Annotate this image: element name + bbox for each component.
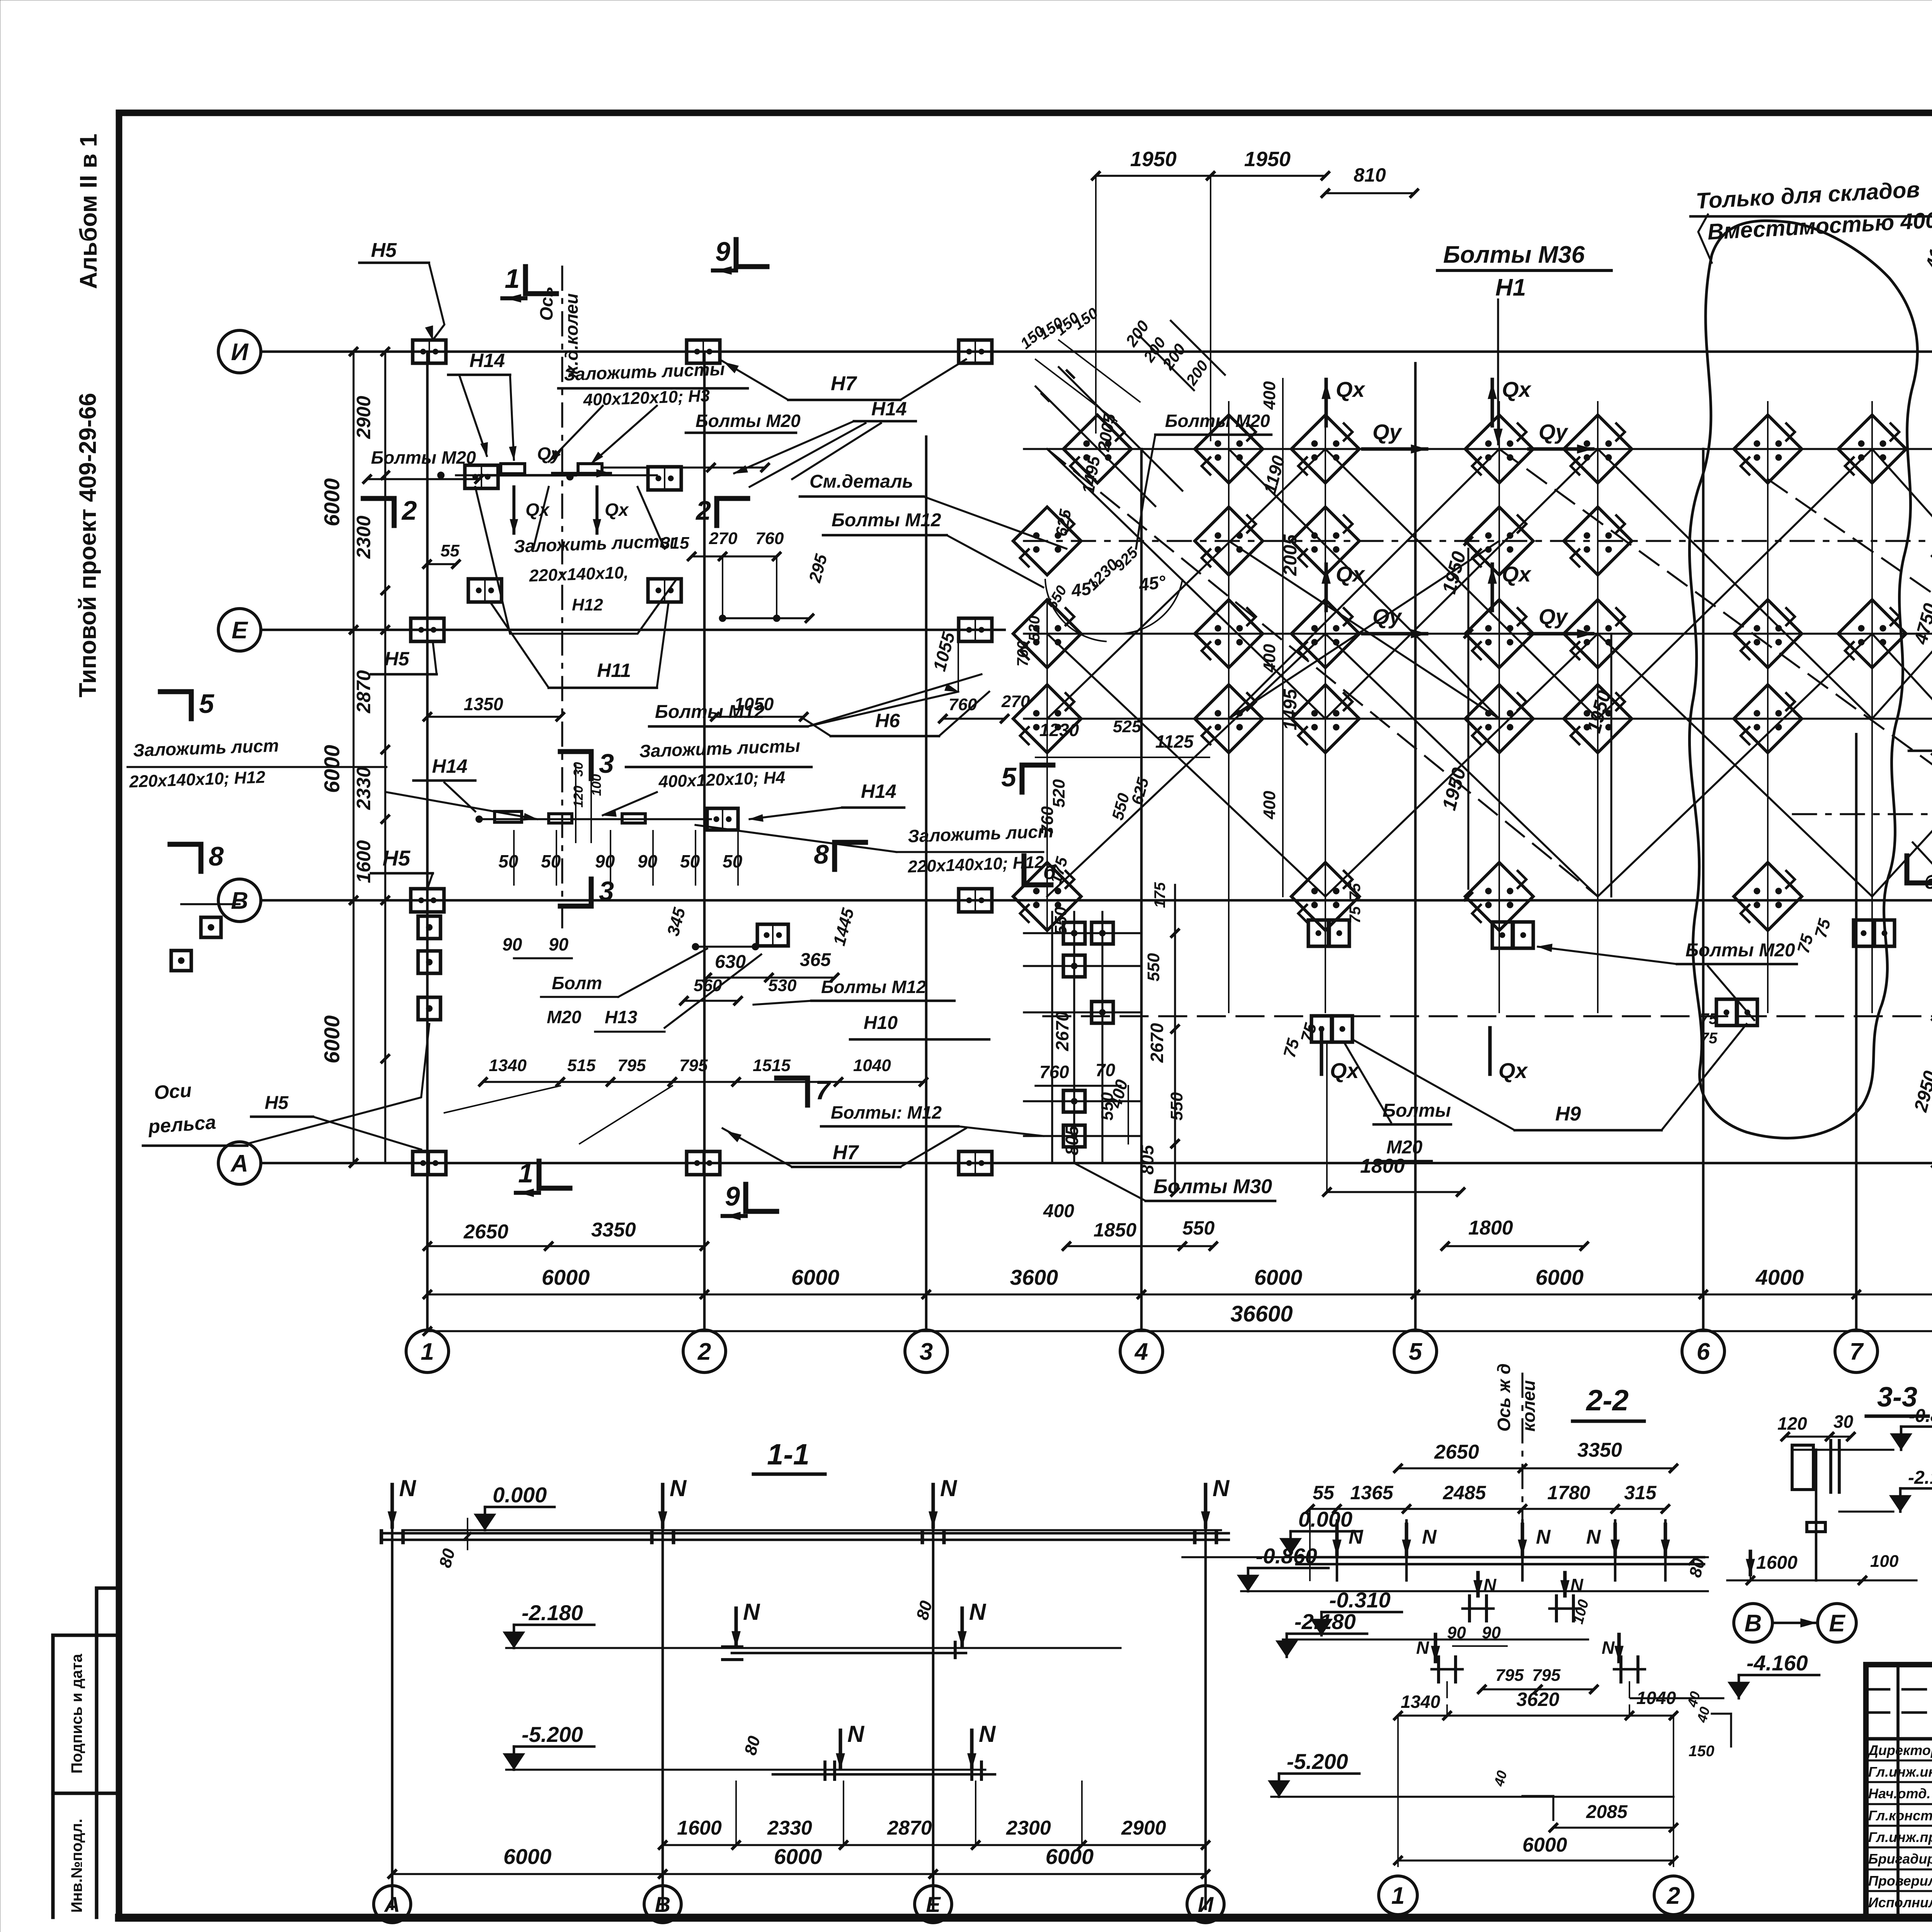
svg-text:2870: 2870 xyxy=(353,670,374,713)
svg-text:А: А xyxy=(230,1150,248,1177)
svg-text:И: И xyxy=(231,339,249,366)
svg-text:805: 805 xyxy=(1062,1125,1082,1155)
svg-text:В: В xyxy=(231,888,248,914)
svg-text:6000: 6000 xyxy=(320,745,344,793)
svg-text:550: 550 xyxy=(1182,1217,1215,1239)
svg-text:Нач.отд.: Нач.отд. xyxy=(1868,1786,1930,1801)
svg-text:2: 2 xyxy=(1667,1883,1680,1909)
svg-text:3: 3 xyxy=(920,1338,933,1365)
svg-text:Н14: Н14 xyxy=(469,350,505,371)
svg-text:N: N xyxy=(1586,1526,1601,1548)
svg-text:2: 2 xyxy=(695,495,711,526)
svg-text:1515: 1515 xyxy=(753,1056,791,1075)
svg-text:75: 75 xyxy=(1347,883,1364,900)
svg-text:8: 8 xyxy=(209,841,224,871)
svg-text:Н5: Н5 xyxy=(383,846,410,870)
svg-text:270: 270 xyxy=(709,529,738,548)
svg-text:560: 560 xyxy=(694,976,722,995)
svg-text:1: 1 xyxy=(505,264,520,294)
svg-text:Qx: Qx xyxy=(1336,562,1366,586)
svg-text:50: 50 xyxy=(498,851,519,871)
svg-text:1230: 1230 xyxy=(1039,720,1079,740)
svg-text:См.деталь: См.деталь xyxy=(810,471,913,492)
svg-text:Н14: Н14 xyxy=(861,781,896,802)
svg-text:Болты М20: Болты М20 xyxy=(1165,411,1270,431)
svg-text:760: 760 xyxy=(949,695,977,714)
svg-text:Альбом II в 1: Альбом II в 1 xyxy=(75,134,102,289)
svg-text:400: 400 xyxy=(1043,1201,1074,1221)
svg-text:9: 9 xyxy=(715,236,730,267)
svg-text:150: 150 xyxy=(1689,1743,1714,1760)
svg-text:Бригадир: Бригадир xyxy=(1868,1851,1932,1867)
svg-text:1600: 1600 xyxy=(353,840,374,883)
svg-text:220х140х10,: 220х140х10, xyxy=(529,563,629,585)
svg-text:5: 5 xyxy=(1001,762,1017,792)
svg-text:3600: 3600 xyxy=(1010,1265,1058,1289)
svg-text:Qy: Qy xyxy=(1539,604,1569,629)
svg-text:30: 30 xyxy=(1833,1412,1854,1432)
svg-text:Н5: Н5 xyxy=(384,648,410,670)
svg-text:530: 530 xyxy=(768,976,797,995)
svg-text:N: N xyxy=(1536,1526,1551,1548)
svg-text:Н9: Н9 xyxy=(1555,1103,1581,1125)
svg-text:2670: 2670 xyxy=(1052,1011,1072,1051)
svg-text:Н10: Н10 xyxy=(864,1013,898,1033)
svg-text:1600: 1600 xyxy=(677,1817,722,1839)
svg-text:520: 520 xyxy=(1049,779,1068,808)
svg-text:Болты М36: Болты М36 xyxy=(1443,241,1585,268)
svg-text:50: 50 xyxy=(723,851,743,871)
svg-text:4000: 4000 xyxy=(1755,1265,1804,1289)
svg-text:N: N xyxy=(940,1475,957,1501)
svg-text:795: 795 xyxy=(1532,1666,1561,1685)
svg-text:760: 760 xyxy=(755,529,784,548)
svg-text:Н6: Н6 xyxy=(875,710,900,731)
svg-text:6000: 6000 xyxy=(1522,1834,1567,1856)
svg-text:1340: 1340 xyxy=(489,1056,527,1075)
svg-text:N: N xyxy=(1570,1575,1583,1595)
svg-text:2: 2 xyxy=(401,495,417,526)
svg-text:Болты: Болты xyxy=(1383,1100,1451,1121)
svg-text:N: N xyxy=(670,1475,687,1501)
svg-text:1800: 1800 xyxy=(1360,1155,1405,1177)
svg-text:1: 1 xyxy=(421,1338,434,1365)
svg-text:400: 400 xyxy=(1260,381,1279,410)
svg-text:550: 550 xyxy=(1098,1092,1117,1121)
svg-text:6000: 6000 xyxy=(774,1844,822,1869)
svg-text:Qx: Qx xyxy=(1502,562,1532,586)
svg-text:1850: 1850 xyxy=(1094,1219,1136,1241)
svg-text:400: 400 xyxy=(1260,644,1279,673)
svg-text:6000: 6000 xyxy=(320,1015,344,1064)
svg-text:Н7: Н7 xyxy=(833,1141,859,1164)
svg-text:N: N xyxy=(1416,1638,1429,1658)
svg-text:Проверил: Проверил xyxy=(1868,1873,1932,1889)
svg-text:2330: 2330 xyxy=(767,1817,812,1839)
svg-text:1: 1 xyxy=(1391,1883,1405,1909)
svg-text:760: 760 xyxy=(1038,806,1057,835)
svg-text:550: 550 xyxy=(1167,1092,1186,1121)
svg-text:1125: 1125 xyxy=(1155,731,1194,752)
svg-text:7: 7 xyxy=(815,1075,832,1105)
svg-text:Гл.инж.ин.: Гл.инж.ин. xyxy=(1868,1764,1932,1780)
svg-text:Н14: Н14 xyxy=(871,398,907,420)
svg-text:Н5: Н5 xyxy=(371,239,397,262)
svg-text:55: 55 xyxy=(440,541,459,560)
svg-text:Н1: Н1 xyxy=(1495,274,1526,301)
svg-text:N: N xyxy=(743,1599,760,1625)
svg-text:1780: 1780 xyxy=(1547,1482,1590,1503)
svg-text:1040: 1040 xyxy=(853,1056,891,1075)
svg-text:3350: 3350 xyxy=(1577,1439,1622,1461)
svg-text:1600: 1600 xyxy=(1756,1553,1798,1573)
svg-text:1340: 1340 xyxy=(1401,1692,1440,1712)
svg-text:Н7: Н7 xyxy=(831,372,857,395)
svg-text:Болты: М12: Болты: М12 xyxy=(831,1102,942,1122)
svg-text:Гл.констр.: Гл.констр. xyxy=(1868,1808,1932,1823)
svg-text:365: 365 xyxy=(800,950,831,970)
svg-text:-5.200: -5.200 xyxy=(522,1722,583,1747)
svg-text:В: В xyxy=(1745,1610,1762,1637)
svg-text:Qx: Qx xyxy=(526,500,550,520)
svg-text:55: 55 xyxy=(1313,1482,1335,1503)
svg-text:315: 315 xyxy=(1624,1482,1657,1503)
svg-text:N: N xyxy=(1213,1475,1230,1501)
svg-text:2330: 2330 xyxy=(353,767,374,810)
svg-text:-2.180: -2.180 xyxy=(1908,1468,1932,1488)
svg-text:Болты М12: Болты М12 xyxy=(821,977,926,997)
svg-text:515: 515 xyxy=(567,1056,596,1075)
svg-text:2300: 2300 xyxy=(1006,1817,1051,1839)
svg-text:100: 100 xyxy=(1870,1552,1899,1571)
svg-text:Qy: Qy xyxy=(1539,420,1569,444)
svg-text:1: 1 xyxy=(518,1158,533,1188)
svg-text:550: 550 xyxy=(1051,906,1070,935)
svg-text:2485: 2485 xyxy=(1442,1482,1486,1503)
svg-text:Qy: Qy xyxy=(1372,604,1403,629)
svg-text:6000: 6000 xyxy=(542,1265,590,1289)
svg-text:120: 120 xyxy=(571,786,586,808)
svg-text:2300: 2300 xyxy=(353,515,374,559)
svg-text:90: 90 xyxy=(595,851,615,871)
svg-text:2: 2 xyxy=(697,1338,711,1365)
svg-text:315: 315 xyxy=(661,534,689,553)
svg-text:75: 75 xyxy=(1700,1010,1718,1027)
svg-text:9: 9 xyxy=(725,1181,740,1211)
svg-text:Болты М30: Болты М30 xyxy=(1153,1175,1272,1198)
svg-text:Е: Е xyxy=(926,1892,941,1917)
svg-text:Болты М20: Болты М20 xyxy=(1685,940,1795,961)
svg-text:Qx: Qx xyxy=(605,500,629,520)
svg-text:175: 175 xyxy=(1151,882,1168,908)
svg-text:Qx: Qx xyxy=(1502,377,1532,401)
svg-text:30: 30 xyxy=(571,762,586,777)
svg-text:Болты М20: Болты М20 xyxy=(696,411,801,431)
svg-text:Е: Е xyxy=(1829,1610,1845,1637)
svg-text:Qy: Qy xyxy=(537,444,562,464)
svg-text:Н13: Н13 xyxy=(605,1007,638,1027)
svg-text:N: N xyxy=(1422,1526,1437,1548)
svg-text:6000: 6000 xyxy=(503,1844,552,1869)
svg-text:1350: 1350 xyxy=(464,694,503,714)
svg-text:5: 5 xyxy=(1409,1338,1423,1365)
svg-text:Н12: Н12 xyxy=(572,595,603,614)
svg-text:-5.200: -5.200 xyxy=(1287,1749,1348,1774)
svg-text:120: 120 xyxy=(1777,1413,1807,1434)
svg-text:90: 90 xyxy=(502,934,522,954)
svg-text:270: 270 xyxy=(1001,692,1030,711)
svg-text:550: 550 xyxy=(1144,953,1163,981)
svg-text:70: 70 xyxy=(1095,1060,1116,1080)
svg-text:Оси: Оси xyxy=(153,1079,192,1104)
svg-text:805: 805 xyxy=(1137,1145,1157,1175)
svg-text:2-2: 2-2 xyxy=(1585,1384,1629,1417)
svg-text:N: N xyxy=(399,1475,417,1501)
svg-text:-0.860: -0.860 xyxy=(1909,1406,1932,1426)
svg-text:-2.180: -2.180 xyxy=(522,1600,583,1625)
svg-text:N: N xyxy=(969,1599,986,1625)
svg-text:-2.180: -2.180 xyxy=(1294,1609,1356,1634)
svg-text:-4.160: -4.160 xyxy=(1747,1651,1808,1675)
svg-text:И: И xyxy=(1198,1892,1214,1917)
svg-text:Типовой проект 409-29-66: Типовой проект 409-29-66 xyxy=(75,393,101,697)
svg-text:Болты М20: Болты М20 xyxy=(371,447,476,468)
svg-text:3: 3 xyxy=(599,876,614,906)
svg-text:90: 90 xyxy=(638,851,658,871)
svg-text:7: 7 xyxy=(1850,1338,1864,1365)
svg-text:2900: 2900 xyxy=(353,396,374,439)
svg-text:90: 90 xyxy=(549,934,569,954)
svg-text:Qx: Qx xyxy=(1336,377,1366,401)
svg-text:760: 760 xyxy=(1014,641,1031,667)
svg-text:795: 795 xyxy=(679,1056,708,1075)
svg-text:Болты М12: Болты М12 xyxy=(655,702,765,722)
svg-text:2900: 2900 xyxy=(1121,1817,1166,1839)
svg-text:45°: 45° xyxy=(1137,571,1167,595)
svg-text:520: 520 xyxy=(1026,616,1043,641)
svg-text:6000: 6000 xyxy=(1254,1265,1303,1289)
svg-text:2650: 2650 xyxy=(1434,1441,1479,1463)
svg-text:810: 810 xyxy=(1354,164,1386,186)
svg-text:525: 525 xyxy=(1113,717,1141,736)
svg-text:50: 50 xyxy=(541,851,561,871)
svg-text:N: N xyxy=(1483,1575,1497,1595)
svg-text:Инв.№подл.: Инв.№подл. xyxy=(68,1819,85,1913)
svg-text:Qy: Qy xyxy=(1372,420,1403,444)
svg-text:3350: 3350 xyxy=(591,1219,636,1241)
svg-text:Директор: Директор xyxy=(1867,1742,1932,1758)
svg-text:6000: 6000 xyxy=(320,478,344,527)
svg-text:8: 8 xyxy=(814,839,829,869)
svg-text:6000: 6000 xyxy=(1046,1844,1094,1869)
svg-text:Исполнил: Исполнил xyxy=(1868,1895,1932,1910)
svg-text:Болты М12: Болты М12 xyxy=(832,510,941,531)
svg-text:Е: Е xyxy=(231,617,248,644)
svg-text:6: 6 xyxy=(1697,1338,1710,1365)
svg-text:Н11: Н11 xyxy=(597,660,631,681)
svg-text:50: 50 xyxy=(680,851,700,871)
svg-text:Qx: Qx xyxy=(1498,1058,1529,1083)
svg-text:0.000: 0.000 xyxy=(1298,1507,1352,1531)
svg-text:36600: 36600 xyxy=(1230,1301,1293,1327)
svg-text:400: 400 xyxy=(1260,791,1279,820)
svg-text:2650: 2650 xyxy=(463,1221,509,1243)
svg-text:Подпись и дата: Подпись и дата xyxy=(68,1653,85,1774)
svg-text:1365: 1365 xyxy=(1350,1482,1393,1503)
svg-text:-0.860: -0.860 xyxy=(1256,1544,1317,1568)
svg-text:2870: 2870 xyxy=(887,1817,932,1839)
svg-text:75: 75 xyxy=(1347,906,1364,923)
svg-text:N: N xyxy=(1349,1526,1364,1548)
svg-text:795: 795 xyxy=(617,1056,646,1075)
svg-text:Ось ж д: Ось ж д xyxy=(1494,1363,1514,1432)
svg-text:-0.310: -0.310 xyxy=(1329,1588,1391,1612)
svg-text:1-1: 1-1 xyxy=(767,1438,810,1471)
svg-text:75: 75 xyxy=(1700,1030,1718,1047)
svg-text:795: 795 xyxy=(1495,1666,1524,1685)
svg-text:0.000: 0.000 xyxy=(493,1483,547,1507)
svg-text:Н5: Н5 xyxy=(265,1093,289,1113)
svg-text:N: N xyxy=(847,1721,865,1747)
svg-text:1950: 1950 xyxy=(1130,148,1177,171)
svg-text:2085: 2085 xyxy=(1586,1802,1628,1822)
svg-text:Н14: Н14 xyxy=(432,755,468,777)
svg-text:3620: 3620 xyxy=(1516,1689,1559,1710)
svg-text:М20: М20 xyxy=(547,1007,582,1027)
svg-text:Гл.инж.пр: Гл.инж.пр xyxy=(1868,1829,1932,1845)
svg-text:В: В xyxy=(655,1892,670,1917)
svg-text:760: 760 xyxy=(1039,1062,1069,1082)
svg-text:4: 4 xyxy=(1134,1338,1148,1365)
svg-text:N: N xyxy=(979,1721,996,1747)
svg-text:А: А xyxy=(384,1892,400,1917)
svg-text:2670: 2670 xyxy=(1147,1023,1167,1063)
svg-text:Болт: Болт xyxy=(552,973,602,993)
svg-text:1950: 1950 xyxy=(1244,148,1291,171)
svg-text:1800: 1800 xyxy=(1468,1217,1513,1239)
svg-text:N: N xyxy=(1602,1638,1615,1658)
svg-text:6000: 6000 xyxy=(1536,1265,1584,1289)
svg-text:5: 5 xyxy=(199,689,214,719)
svg-text:6000: 6000 xyxy=(791,1265,840,1289)
